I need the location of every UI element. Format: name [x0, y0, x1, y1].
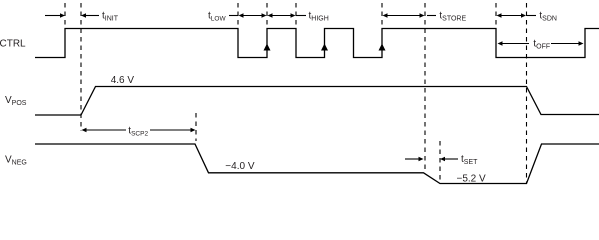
svg-text:tOFF: tOFF — [533, 39, 550, 51]
wire CTRL waveform — [35, 29, 599, 58]
arrowhead up-triangle on CTRL rising edge x=324.5 — [321, 44, 328, 51]
arrow t_STORE span — [386, 15, 421, 17]
arrowhead t_HIGH left end at x=267 — [268, 13, 273, 17]
svg-text:tSTORE: tSTORE — [439, 10, 466, 22]
svg-text:4.6 V: 4.6 V — [111, 75, 135, 86]
arrow t_SDN leader line — [527, 15, 536, 17]
arrowhead t_STORE right end at x=425 — [420, 13, 425, 17]
node dashed reference line at CTRL initial rise x=65 — [64, 3, 66, 28]
arrow t_LOW leader line — [229, 15, 238, 17]
arrowhead t_LOW right end at x=267 — [262, 13, 267, 17]
arrowhead t_OFF right end at x=583.5 — [579, 41, 584, 45]
arrow t_INIT right pointer — [85, 15, 99, 17]
node dashed tick x=196 (end of t_SCP2, VNEG ramp start) — [195, 113, 197, 141]
node dashed reference line x=267 (t_LOW end / t_HIGH start) — [266, 3, 268, 28]
arrowhead t_SCP2 left end at x=81.5 — [82, 128, 87, 132]
node dashed reference line x=296 (t_HIGH end) — [295, 3, 297, 28]
arrow t_SDN span — [500, 15, 523, 17]
arrow t_SCP2 right segment — [150, 129, 192, 131]
arrow t_SET right pointer — [444, 158, 458, 160]
svg-text:tSDN: tSDN — [539, 10, 557, 22]
arrowhead up-triangle on CTRL rising edge x=382 — [379, 44, 386, 51]
svg-text:CTRL: CTRL — [0, 39, 26, 50]
arrowhead t_LOW left end at x=238 — [239, 13, 244, 17]
node dashed reference line x=425 (t_STORE end / t_SET start) — [424, 3, 426, 172]
wire VPOS waveform — [35, 87, 599, 116]
arrowhead t_SDN right end at x=526 — [521, 13, 526, 17]
arrowhead t_SET left-pointing at x=440 — [440, 157, 445, 161]
arrowhead up-triangle on CTRL rising edge x=267 — [264, 44, 271, 51]
svg-text:VPOS: VPOS — [5, 95, 27, 107]
node dashed reference line x=238 (CTRL fall, t_LOW start) — [237, 3, 239, 28]
svg-text:tSCP2: tSCP2 — [128, 126, 148, 138]
svg-text:VNEG: VNEG — [5, 155, 27, 167]
arrowhead t_SCP2 right end at x=195.5 — [191, 128, 196, 132]
wire VNEG waveform — [35, 144, 599, 184]
arrowhead t_SDN left end at x=496 — [497, 13, 502, 17]
arrow t_HIGH span — [271, 15, 292, 17]
arrow t_INIT left pointer — [45, 15, 61, 17]
node dashed reference line x=382 (t_STORE start) — [381, 3, 383, 28]
arrow t_STORE leader line — [427, 15, 436, 17]
arrow t_OFF right segment — [551, 43, 580, 45]
node dashed reference line x=526.5 (t_SDN end, VPOS/VNEG ramp) — [526, 3, 528, 184]
arrowhead t_SET right-pointing at x=423.5 — [419, 157, 424, 161]
node dashed reference line x=81 (end of t_INIT / start of t_SCP2) — [80, 3, 82, 131]
svg-text:−4.0 V: −4.0 V — [225, 161, 255, 172]
svg-text:tSET: tSET — [461, 154, 478, 166]
svg-text:tLOW: tLOW — [208, 10, 226, 22]
arrow t_LOW span — [242, 15, 263, 17]
arrow t_OFF left segment — [502, 43, 530, 45]
arrowhead t_OFF left end at x=497.5 — [498, 41, 503, 45]
arrowhead t_INIT left-pointing at x=81 — [81, 13, 86, 17]
arrow t_SET left pointer — [405, 158, 420, 160]
svg-text:tINIT: tINIT — [102, 10, 119, 22]
arrow t_HIGH leader line — [296, 15, 306, 17]
node dashed reference line x=496 (CTRL fall, t_SDN start) — [495, 3, 497, 28]
node dashed reference line x=440 (t_SET end, VNEG reaches -5.2) — [439, 141, 441, 184]
arrowhead t_INIT right-pointing at x=65 — [60, 13, 65, 17]
arrowhead t_STORE left end at x=382 — [383, 13, 388, 17]
svg-text:tHIGH: tHIGH — [309, 10, 329, 22]
arrow t_SCP2 left segment — [86, 129, 127, 131]
svg-text:−5.2 V: −5.2 V — [457, 174, 487, 185]
arrowhead t_HIGH right end at x=296 — [291, 13, 296, 17]
